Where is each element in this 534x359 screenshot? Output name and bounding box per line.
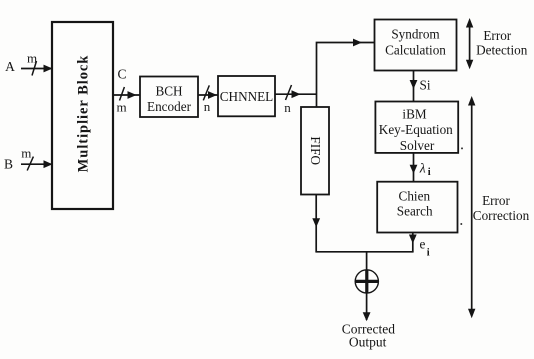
- stray dot right of Chien block: [460, 223, 462, 225]
- stray dot right of iBM block: [461, 147, 463, 149]
- svg-text:Encoder: Encoder: [147, 99, 192, 114]
- svg-text:Chien: Chien: [399, 188, 431, 203]
- Syndrome Calculation block U5: [375, 20, 457, 71]
- iBM Key-Equation Solver block U6: [375, 102, 458, 153]
- bus slash A: [32, 61, 37, 76]
- arrowhead input A: [44, 65, 53, 73]
- svg-text:Calculation: Calculation: [385, 42, 446, 57]
- arrowhead input B: [44, 160, 53, 168]
- wire FIFO down: [315, 195, 317, 252]
- wire XOR to output: [366, 293, 368, 320]
- wire bottom bus: [315, 251, 413, 253]
- XOR adder circle: [355, 270, 378, 293]
- bus slash n2: [286, 85, 292, 100]
- svg-text:Output: Output: [349, 335, 387, 350]
- svg-text:Si: Si: [420, 77, 431, 92]
- svg-text:e: e: [420, 237, 426, 252]
- svg-text:Error: Error: [483, 28, 511, 43]
- svg-text:Key-Equation: Key-Equation: [379, 122, 453, 137]
- arrowhead ei down: [409, 235, 417, 244]
- error detection span arrow: [466, 18, 473, 69]
- svg-text:Solver: Solver: [400, 138, 435, 153]
- wire channel to node N1: [275, 93, 317, 95]
- bus slash B: [27, 157, 33, 171]
- Chien Search block U7: [377, 182, 457, 233]
- wire input A: [21, 68, 51, 70]
- arrowhead BCH to channel: [208, 91, 217, 99]
- svg-text:i: i: [427, 247, 430, 258]
- arrowhead FIFO down: [312, 218, 320, 227]
- arrowhead channel to node: [292, 90, 301, 98]
- svg-text:m: m: [21, 145, 31, 160]
- svg-text:Detection: Detection: [476, 43, 528, 58]
- svg-text:B: B: [4, 156, 13, 171]
- svg-text:Correction: Correction: [473, 208, 530, 223]
- svg-text:m: m: [116, 99, 126, 114]
- svg-text:BCH: BCH: [155, 84, 183, 99]
- svg-text:λ: λ: [419, 161, 426, 176]
- svg-text:m: m: [27, 50, 37, 65]
- Channel block U3: [218, 76, 275, 116]
- svg-text:Search: Search: [397, 204, 433, 219]
- wire node N1 vertical riser: [317, 43, 375, 108]
- wire input B: [21, 163, 51, 165]
- error correction span arrow: [468, 96, 475, 318]
- wire iBM to Chien (lambda): [413, 153, 415, 182]
- svg-text:Multiplier Block: Multiplier Block: [76, 55, 92, 173]
- wire into XOR: [366, 252, 368, 270]
- svg-text:iBM: iBM: [402, 106, 426, 121]
- bus slash C: [120, 87, 125, 101]
- BCH Encoder block U2: [140, 77, 198, 118]
- svg-text:i: i: [428, 167, 431, 178]
- arrowhead Si down: [410, 80, 418, 89]
- wire BCH encoder to channel: [198, 94, 218, 96]
- FIFO block U4: [301, 107, 329, 195]
- svg-text:FIFO: FIFO: [308, 136, 323, 165]
- svg-text:n: n: [204, 99, 211, 114]
- wire syndrome to iBM (Si): [413, 71, 415, 102]
- svg-text:n: n: [284, 100, 291, 115]
- svg-text:A: A: [5, 59, 15, 74]
- wire Chien to sum node (ei): [412, 233, 414, 252]
- arrowhead corrected output: [363, 312, 371, 321]
- svg-text:Syndrom: Syndrom: [391, 26, 440, 41]
- arrowhead into syndrome calculation: [353, 39, 362, 47]
- Multiplier Block U1: [52, 22, 113, 209]
- svg-text:Error: Error: [482, 193, 510, 208]
- arrowhead lambda down: [410, 165, 418, 174]
- svg-text:CHNNEL: CHNNEL: [220, 89, 273, 104]
- wire C: multiplier to BCH encoder: [113, 94, 140, 96]
- svg-text:C: C: [117, 66, 126, 81]
- arrowhead wire C: [128, 91, 137, 99]
- bus slash n1: [203, 85, 209, 100]
